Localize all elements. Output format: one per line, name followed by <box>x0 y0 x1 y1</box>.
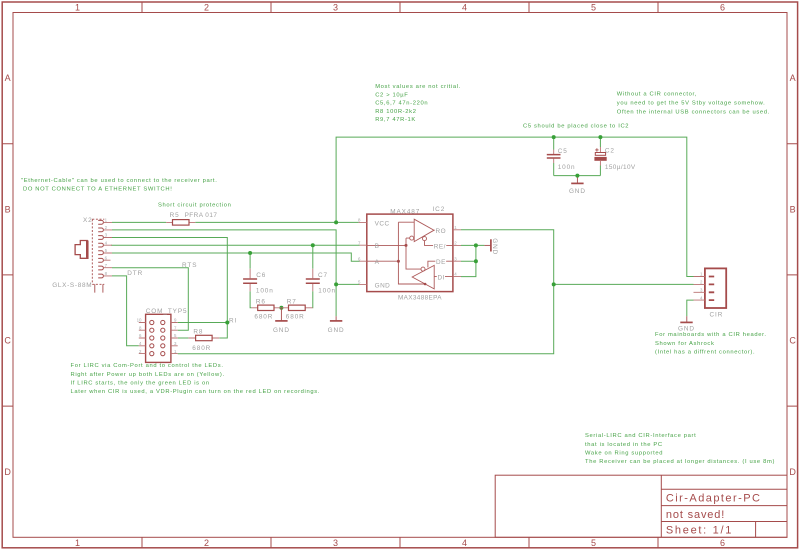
junction C5 tap on 5V wire <box>552 135 556 139</box>
svg-text:B: B <box>790 204 796 214</box>
svg-text:R8 100R-2k2: R8 100R-2k2 <box>375 109 416 115</box>
svg-text:GND: GND <box>678 325 695 332</box>
IC2 inner DE link <box>428 261 453 276</box>
svg-text:VCC: VCC <box>375 220 390 227</box>
svg-text:GND: GND <box>569 188 586 195</box>
wire C2 pins <box>599 137 601 176</box>
X2 plug symbol <box>75 241 88 259</box>
svg-text:D: D <box>789 467 796 477</box>
wire IC2 RE/ to gnd and DE DI tie <box>461 245 484 276</box>
wire C6 bottom to R6 <box>250 291 251 308</box>
svg-text:100n: 100n <box>558 164 576 171</box>
svg-text:If LIRC starts, the only the g: If LIRC starts, the only the green LED i… <box>71 380 210 386</box>
svg-text:R5: R5 <box>170 212 180 219</box>
capacitor C7 <box>306 269 336 295</box>
svg-text:4: 4 <box>462 3 467 13</box>
svg-text:DE: DE <box>436 259 446 266</box>
svg-text:D: D <box>4 467 11 477</box>
svg-text:10: 10 <box>137 318 142 323</box>
svg-text:GND: GND <box>375 282 391 289</box>
frame column numbers bottom <box>75 538 725 548</box>
svg-text:MAX487: MAX487 <box>390 208 420 215</box>
svg-text:B: B <box>375 243 380 250</box>
svg-text:2: 2 <box>204 538 209 548</box>
svg-text:Right after Power up both LEDs: Right after Power up both LEDs are on (Y… <box>71 372 225 378</box>
svg-text:5: 5 <box>591 538 596 548</box>
frame left ruler ticks <box>2 144 13 406</box>
svg-text:GND: GND <box>491 238 498 255</box>
wire IC2 RO right down to COM pin1 <box>178 230 554 354</box>
IC2 RE bubble <box>423 237 427 241</box>
svg-text:GND: GND <box>328 327 345 334</box>
connector COM_TYP5 <box>137 308 188 362</box>
svg-text:C2: C2 <box>605 148 615 155</box>
svg-text:B: B <box>5 204 11 214</box>
frame column numbers top <box>75 3 725 13</box>
resistor R8 <box>188 329 219 352</box>
svg-text:IC2: IC2 <box>433 206 446 213</box>
wire X2 pin4 to IC2 B pin <box>111 244 360 246</box>
svg-text:For mainboards with a CIR head: For mainboards with a CIR header. <box>655 332 767 338</box>
svg-text:6: 6 <box>720 538 725 548</box>
wire X2 pin7 RTS to COM pin7 <box>112 268 188 331</box>
svg-text:Wake on Ring supported: Wake on Ring supported <box>585 451 663 457</box>
svg-text:2: 2 <box>204 3 209 13</box>
svg-text:5: 5 <box>591 3 596 13</box>
ground symbol below CIR <box>678 316 695 332</box>
resistor R7 <box>281 298 312 320</box>
X2 contacts <box>98 220 103 278</box>
IC2 pin names inside <box>375 220 446 289</box>
svg-text:680R: 680R <box>286 314 305 321</box>
svg-text:150µ/10V: 150µ/10V <box>605 164 636 171</box>
wire CIR pin4 to gnd <box>687 300 694 316</box>
svg-text:C: C <box>4 336 11 346</box>
IC2 inner RE link <box>425 241 453 246</box>
svg-text:For LIRC via Com-Port and to c: For LIRC via Com-Port and to control the… <box>71 363 224 369</box>
svg-text:(Intel has a diffrent connecto: (Intel has a diffrent connector). <box>655 350 755 356</box>
svg-text:C6: C6 <box>256 272 266 279</box>
wire C7 tap down <box>312 245 314 269</box>
svg-text:C5: C5 <box>558 148 568 155</box>
connector X2 ethernet jack <box>52 217 112 293</box>
X2 legs <box>95 284 103 292</box>
svg-text:3: 3 <box>333 538 338 548</box>
svg-text:3: 3 <box>333 3 338 13</box>
svg-text:Sheet: 1/1: Sheet: 1/1 <box>666 525 733 537</box>
svg-text:Most values are not critial.: Most values are not critial. <box>375 84 461 90</box>
ground symbol below C5 C2 <box>569 178 586 195</box>
wire C5 C2 gnd bus <box>554 176 601 178</box>
wire RI node to COM pin9 and down to R8 <box>178 323 228 339</box>
capacitor C2 polarized <box>594 147 636 171</box>
IC2 receiver input bubble <box>410 236 414 240</box>
connector CIR <box>694 268 727 318</box>
svg-text:DTR: DTR <box>127 270 143 277</box>
junction C2 tap on 5V wire <box>598 135 602 139</box>
wire X2 pin3 down to RI node <box>112 238 227 323</box>
IC2 inner junction dots <box>405 244 408 247</box>
IC2 left pin stubs <box>359 222 367 284</box>
junction C7 tap on B wire <box>311 243 315 247</box>
svg-text:R7: R7 <box>287 298 297 305</box>
svg-text:GLX-S-88M: GLX-S-88M <box>52 282 92 289</box>
capacitor C6 <box>243 269 274 295</box>
wire RO net branch to CIR pin2 <box>554 283 694 285</box>
X2 pin numbers <box>105 218 108 277</box>
IC2 pin numbers <box>358 218 457 285</box>
svg-text:R6: R6 <box>256 298 266 305</box>
svg-text:Short circuit protection: Short circuit protection <box>158 202 232 208</box>
svg-text:R9,7 47R-1K: R9,7 47R-1K <box>375 117 416 123</box>
svg-text:Shown for Ashrock: Shown for Ashrock <box>655 341 715 347</box>
svg-text:not saved!: not saved! <box>666 509 725 521</box>
frame bottom ruler ticks <box>142 537 658 548</box>
X2 plug hatch bar <box>86 241 88 258</box>
wire C6 tap down <box>249 253 251 269</box>
wire X2 pin2 down to GND node <box>112 230 336 285</box>
IC2 inner B bus <box>367 238 421 269</box>
wire X2 pin8 DTR to COM pin4 <box>112 276 139 346</box>
junction C6 tap on A wire <box>248 251 252 255</box>
IC2 inner receiver triangle <box>414 219 445 241</box>
capacitor C5 <box>547 148 576 171</box>
svg-text:"Ethernet-Cable" can be used t: "Ethernet-Cable" can be used to connect … <box>21 178 217 184</box>
X2 dashed body <box>92 219 104 284</box>
svg-text:100n: 100n <box>256 287 274 294</box>
junction IC2 DE pin3 <box>474 259 478 263</box>
svg-text:GND: GND <box>273 327 290 334</box>
junction RO net to CIR pin2 <box>552 282 556 286</box>
svg-text:1: 1 <box>75 538 80 548</box>
IC2 right pin stubs <box>453 230 461 277</box>
svg-text:RO: RO <box>436 228 447 235</box>
svg-text:1: 1 <box>75 3 80 13</box>
svg-text:CIR: CIR <box>710 311 724 318</box>
frame row letters right <box>789 73 796 477</box>
ground symbol for IC2 gnd node <box>328 316 345 334</box>
IC2 inner A bus <box>367 222 425 284</box>
IC2 box <box>367 214 453 292</box>
svg-text:6: 6 <box>720 3 725 13</box>
annotation: LIRC com-port note <box>71 363 321 395</box>
svg-text:DO NOT CONNECT TO A ETHERNET S: DO NOT CONNECT TO A ETHERNET SWITCH! <box>23 186 172 192</box>
junction VCC net at IC2 pin8 wire <box>334 220 338 224</box>
annotation: ethernet cable note <box>21 178 217 192</box>
resistor R5 <box>166 212 217 225</box>
svg-text:PFRA 017: PFRA 017 <box>185 212 218 219</box>
svg-text:RE/: RE/ <box>434 243 446 250</box>
wire C5 pins <box>553 137 555 176</box>
wire X2 pin5 to IC2 A pin with jog <box>112 253 360 261</box>
svg-text:Cir-Adapter-PC: Cir-Adapter-PC <box>666 493 762 505</box>
svg-text:RI: RI <box>229 317 237 324</box>
junction node RI <box>225 321 229 325</box>
IC2 inner driver triangle <box>412 265 434 289</box>
frame row letters left <box>4 73 11 477</box>
svg-text:C2 > 10µF: C2 > 10µF <box>375 92 408 98</box>
svg-text:680R: 680R <box>192 345 211 352</box>
svg-text:you need to get the 5V Stby vo: you need to get the 5V Stby voltage some… <box>617 100 766 106</box>
ground symbol below R6 R7 <box>273 308 290 334</box>
svg-text:A: A <box>5 73 11 83</box>
svg-text:C7: C7 <box>318 272 328 279</box>
svg-text:A: A <box>790 73 796 83</box>
svg-text:100n: 100n <box>318 287 336 294</box>
svg-text:680R: 680R <box>254 314 273 321</box>
svg-text:R8: R8 <box>193 329 203 336</box>
wire VCC up and over to CIR pin1 <box>336 137 693 276</box>
svg-text:DI: DI <box>438 275 445 282</box>
svg-text:C5,6,7 47n-220n: C5,6,7 47n-220n <box>375 101 428 107</box>
svg-text:C5 should be placed close to I: C5 should be placed close to IC2 <box>523 124 629 130</box>
svg-text:Serial-LIRC and CIR-Interface: Serial-LIRC and CIR-Interface part <box>585 433 696 439</box>
annotation: CIR connector note <box>617 91 770 115</box>
ground symbol at IC2 RE pin rotated <box>484 238 498 255</box>
svg-text:C: C <box>789 336 796 346</box>
X2 pin stubs <box>104 222 112 276</box>
wire GND node to IC2 GND pin5 <box>336 284 359 316</box>
junction GND net at IC2 pin5 wire <box>334 282 338 286</box>
svg-text:COM_TYP5: COM_TYP5 <box>146 308 188 315</box>
svg-text:RTS: RTS <box>182 262 197 269</box>
svg-text:Without a CIR connector,: Without a CIR connector, <box>617 91 697 97</box>
svg-text:A: A <box>375 259 380 266</box>
IC2 driver output bubble <box>421 267 425 271</box>
annotation: most values note <box>375 84 461 123</box>
annotation: mainboard CIR header note <box>655 332 767 356</box>
svg-text:that is located in the PC: that is located in the PC <box>585 442 663 448</box>
wire C7 bottom to R7 <box>312 291 314 308</box>
resistor R6 <box>251 298 281 320</box>
svg-text:MAX3488EPA: MAX3488EPA <box>398 295 442 302</box>
svg-text:The Receiver can be placed at: The Receiver can be placed at longer dis… <box>585 459 775 465</box>
title block <box>495 475 787 537</box>
svg-text:Often the internal USB connect: Often the internal USB connectors can be… <box>617 109 770 115</box>
frame right ruler ticks <box>787 144 798 406</box>
junction R6 R7 gnd <box>279 306 283 310</box>
IC2 MAX487 <box>358 206 461 302</box>
svg-text:X2: X2 <box>83 217 93 224</box>
svg-text:Later when CIR is used, a VDR-: Later when CIR is used, a VDR-Plugin can… <box>71 389 321 395</box>
junction IC2 RE pin2 <box>474 243 478 247</box>
junction C5 C2 gnd <box>575 174 579 178</box>
frame top ruler ticks <box>142 2 658 13</box>
wire X2 pin1 to R5 to IC2 VCC <box>112 221 359 223</box>
annotation: serial-LIRC part note <box>585 433 775 465</box>
svg-text:4: 4 <box>462 538 467 548</box>
